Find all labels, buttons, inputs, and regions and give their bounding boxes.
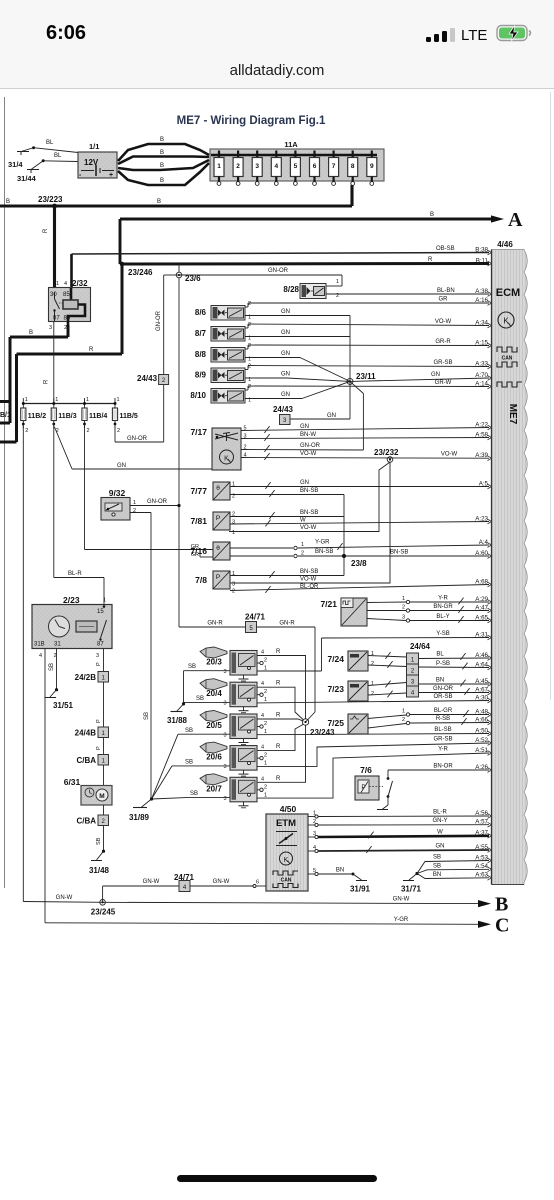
svg-text:ME7: ME7 — [507, 404, 518, 425]
connector C/BA 1 — [76, 755, 108, 766]
svg-text:9: 9 — [370, 163, 374, 170]
wire 7/17 pin 3 BN-W — [241, 432, 489, 441]
svg-text:2: 2 — [371, 661, 374, 667]
svg-text:GR-W: GR-W — [435, 380, 452, 386]
wire OB-SB to B:38 — [72, 246, 490, 288]
svg-text:A:63: A:63 — [475, 872, 488, 879]
wire 7/21 pin 1 Y-R — [367, 596, 489, 605]
svg-text:Y-GR: Y-GR — [394, 917, 409, 923]
svg-text:1: 1 — [232, 530, 235, 536]
svg-text:BL-GR: BL-GR — [434, 708, 453, 714]
connector C/BA 2 — [76, 815, 108, 826]
svg-text:R-SB: R-SB — [436, 716, 450, 722]
wire VO-W 23/232 to 7/81 pin1 — [229, 462, 390, 536]
sensor 7/25 — [327, 714, 368, 734]
node 23/232 — [374, 448, 399, 462]
wire R 20/4 pin4 — [257, 681, 303, 720]
svg-text:C/BA: C/BA — [76, 817, 96, 826]
wire 8/6 pin2 — [245, 303, 489, 307]
svg-text:6/31: 6/31 — [64, 777, 81, 787]
ignition coil 20/7 — [200, 774, 267, 808]
pressure sensor 7/8 — [195, 571, 230, 589]
svg-text:A:5: A:5 — [479, 480, 489, 487]
svg-text:BL: BL — [436, 652, 444, 658]
wire BL-SB 20/5 pin1 to A:50 — [257, 727, 489, 735]
starter motor 6/31 — [64, 777, 112, 805]
fuse 2 (11A) — [233, 151, 243, 186]
fuse 6 (11A) — [310, 151, 320, 186]
svg-text:SB: SB — [185, 728, 193, 734]
svg-text:BN-GR: BN-GR — [433, 604, 453, 610]
wire ETM pin 2 GN-Y — [308, 818, 489, 826]
svg-text:23/8: 23/8 — [351, 559, 367, 568]
svg-text:A:34: A:34 — [475, 319, 488, 326]
svg-text:A:51: A:51 — [475, 747, 488, 754]
wire from fuse 8 down — [350, 185, 353, 206]
svg-text:BN-SB: BN-SB — [300, 510, 318, 516]
wire 7/25 pin2 R-SB — [368, 716, 489, 728]
svg-text:P: P — [96, 719, 102, 723]
wire SB 20/7 to node 31/89 — [152, 791, 231, 799]
svg-text:R: R — [276, 744, 281, 750]
svg-text:2: 2 — [64, 325, 67, 331]
svg-text:GN-W: GN-W — [143, 879, 160, 885]
svg-text:3: 3 — [49, 325, 52, 331]
svg-text:23/243: 23/243 — [310, 728, 335, 737]
connector 24/4B — [75, 727, 109, 738]
svg-text:3: 3 — [223, 701, 226, 707]
svg-text:BN-SB: BN-SB — [390, 550, 408, 556]
svg-text:2: 2 — [25, 428, 28, 434]
connector 24/43 pin3 — [273, 405, 294, 425]
svg-text:BL-BN: BL-BN — [437, 288, 455, 294]
svg-text:1: 1 — [264, 697, 267, 703]
ground 31/71 SB SB BN — [401, 855, 489, 894]
svg-text:θ: θ — [216, 485, 220, 492]
svg-text:R: R — [276, 681, 281, 687]
wire motor to C/BA 2 — [103, 805, 105, 815]
wire R 20/6 pin4 — [257, 725, 303, 751]
svg-text:2: 2 — [236, 163, 240, 170]
svg-text:1: 1 — [371, 681, 374, 687]
svg-text:31/51: 31/51 — [53, 701, 74, 710]
wire OR-SB 20/4 pin1 to A:30 — [257, 694, 489, 703]
svg-text:BL: BL — [46, 140, 54, 146]
svg-text:A:22: A:22 — [475, 421, 488, 428]
wire VO-W 23/232 to 7/8 pin3 — [229, 462, 390, 588]
connector 24/71 pin5 — [245, 613, 266, 633]
injector 8/28 — [283, 279, 489, 299]
wire GN-OR 23/6 to 8/28 — [179, 268, 342, 286]
svg-text:CAN: CAN — [281, 878, 292, 884]
svg-text:1: 1 — [117, 397, 120, 403]
svg-text:Y-SB: Y-SB — [436, 631, 449, 637]
node 23/243 — [302, 719, 335, 737]
clock 6:06 — [46, 22, 86, 44]
svg-text:GR: GR — [191, 544, 199, 550]
svg-text:A:53: A:53 — [475, 854, 488, 861]
knock sensor 7/21 — [320, 598, 367, 626]
wire to motor 6/31 — [103, 765, 105, 786]
wire ETM pin 3 W — [308, 829, 489, 838]
svg-text:BN-SB: BN-SB — [300, 569, 318, 575]
svg-text:1: 1 — [402, 709, 405, 715]
svg-text:R: R — [276, 776, 281, 782]
svg-text:GN: GN — [117, 463, 126, 469]
svg-text:31/48: 31/48 — [89, 866, 110, 875]
fuse 11B/2 — [21, 397, 46, 434]
svg-text:+: + — [109, 172, 113, 179]
svg-text:B/1: B/1 — [0, 412, 11, 419]
wire color labels right column — [433, 297, 457, 458]
wire GN-W via 24/71 pin4 to ETM pin6 — [103, 879, 266, 902]
svg-text:P: P — [96, 746, 102, 750]
svg-text:11B/3: 11B/3 — [58, 413, 76, 420]
svg-text:1: 1 — [86, 397, 89, 403]
svg-text:R: R — [276, 649, 281, 655]
svg-text:GN: GN — [300, 480, 309, 486]
wire R drop to relay 2/32 pin1 — [43, 206, 55, 288]
wire SB 20/5 to node 31/89 — [152, 728, 231, 799]
svg-text:6: 6 — [313, 163, 317, 170]
svg-text:OB-SB: OB-SB — [436, 246, 455, 252]
svg-text:VO-W: VO-W — [300, 577, 317, 583]
svg-text:BN-OR: BN-OR — [433, 764, 453, 770]
svg-text:A:39: A:39 — [475, 452, 488, 459]
wire SB 20/6 to node 31/89 — [152, 760, 231, 800]
svg-text:4/46: 4/46 — [497, 240, 513, 249]
svg-text:A:45: A:45 — [475, 678, 488, 685]
wire 2/23 pin3 chain down — [96, 649, 104, 672]
svg-text:ME7 - Wiring Diagram Fig.1: ME7 - Wiring Diagram Fig.1 — [177, 115, 326, 127]
svg-text:1: 1 — [264, 792, 267, 798]
wire 2/23 pin4 to arrow C — [45, 649, 478, 925]
svg-text:SB: SB — [144, 712, 150, 720]
wire P-SB to A:64 — [419, 661, 490, 669]
switch 9/32 — [101, 488, 130, 520]
svg-text:K: K — [284, 857, 289, 864]
temp sensor 7/77 — [190, 482, 230, 500]
node 23/223 — [52, 204, 57, 209]
svg-text:31/44: 31/44 — [17, 174, 37, 183]
wire ETM pin 1 BL-R — [308, 810, 489, 819]
fuse bus 11B — [23, 403, 115, 405]
svg-text:GR-R: GR-R — [435, 339, 451, 345]
wire 11B/4 GR to 7/16 — [85, 424, 214, 557]
wire GN 8/6 pin1 — [245, 309, 350, 381]
svg-text:7/25: 7/25 — [327, 718, 344, 728]
svg-text:11B/5: 11B/5 — [120, 413, 138, 420]
svg-text:6:06: 6:06 — [46, 22, 86, 44]
diagram title — [177, 115, 326, 127]
pressure switch 7/6 — [355, 765, 393, 800]
wire BN to A:45 — [419, 678, 490, 687]
svg-text:GN: GN — [431, 372, 440, 378]
wire 7/24 pin2 P-SB — [368, 661, 407, 668]
ECM pin labels — [475, 246, 491, 880]
svg-text:SB: SB — [190, 791, 198, 797]
svg-text:SB: SB — [433, 855, 441, 861]
svg-text:3: 3 — [402, 615, 405, 621]
wire BL-BN to A:38 labels — [437, 288, 455, 294]
svg-text:SB: SB — [188, 664, 196, 670]
svg-text:8/28: 8/28 — [283, 285, 299, 294]
svg-text:BN: BN — [336, 868, 344, 874]
wire B 23/223 horizontal — [0, 195, 352, 206]
svg-text:BN-SB: BN-SB — [315, 549, 333, 555]
wire 7/17 pin 2 GN-OR — [241, 443, 363, 452]
wire BN-OR 7/6 to A:26 — [388, 764, 489, 779]
wire Y-SB 20/3 pin1 to A:31 — [257, 631, 489, 671]
wire GN 8/9 pin1 — [245, 372, 350, 382]
svg-text:5: 5 — [294, 163, 298, 170]
fuse 9 (11A) — [367, 151, 377, 186]
svg-text:GN-Y: GN-Y — [433, 818, 448, 824]
svg-text:GN: GN — [281, 351, 290, 357]
wire R 20/5 pin4 — [257, 713, 304, 722]
wire 8/9 pin2 — [245, 366, 489, 370]
sensor 7/23 — [327, 681, 368, 701]
wire GN-OR 7/17 pin2 to node 23/11 — [350, 381, 363, 450]
svg-text:VO-W: VO-W — [300, 451, 317, 457]
battery 1/1 12V — [78, 142, 117, 179]
svg-text:CAN: CAN — [502, 356, 513, 362]
svg-text:GN-W: GN-W — [393, 897, 410, 903]
svg-text:R: R — [44, 379, 50, 384]
throttle unit 7/17 — [190, 427, 241, 470]
svg-text:GN-OR: GN-OR — [268, 268, 289, 274]
svg-text:BL-SB: BL-SB — [434, 727, 451, 733]
svg-text:31/91: 31/91 — [350, 885, 371, 894]
svg-text:A:15: A:15 — [475, 339, 488, 346]
svg-text:A:30: A:30 — [475, 694, 488, 701]
wire BL 31/4 to battery — [34, 140, 78, 153]
svg-text:B: B — [430, 212, 434, 218]
svg-text:24/43: 24/43 — [137, 374, 158, 383]
wire 7/21 pin 2 BN-GR — [367, 604, 489, 613]
svg-text:A:47: A:47 — [475, 604, 488, 611]
ignition coil 20/3 — [200, 647, 267, 681]
svg-text:2/32: 2/32 — [72, 279, 88, 288]
wire 8/8 pin2 — [245, 345, 489, 349]
svg-text:3: 3 — [223, 764, 226, 770]
svg-text:7: 7 — [332, 163, 336, 170]
svg-text:3: 3 — [223, 733, 226, 739]
svg-text:30: 30 — [50, 292, 57, 298]
svg-text:24/4B: 24/4B — [75, 729, 97, 738]
svg-text:2: 2 — [87, 428, 90, 434]
svg-text:P: P — [216, 574, 220, 581]
svg-text:7/77: 7/77 — [190, 486, 207, 496]
wire BL-OR 7/8 pin2 to A:68 — [230, 584, 489, 595]
fuse 3 (11A) — [252, 151, 262, 186]
svg-text:7/21: 7/21 — [320, 599, 337, 609]
svg-text:31: 31 — [54, 642, 61, 648]
svg-text:24/43: 24/43 — [273, 405, 294, 414]
wire 11B/2 down to GN-W — [22, 424, 24, 902]
svg-text:4: 4 — [261, 681, 264, 687]
svg-text:A:4: A:4 — [479, 539, 489, 546]
svg-text:7/23: 7/23 — [327, 684, 344, 694]
svg-text:2: 2 — [117, 428, 120, 434]
svg-text:8/10: 8/10 — [190, 391, 206, 400]
svg-text:1: 1 — [232, 571, 235, 577]
wire GR-SB 20/6 pin1 to A:52 — [257, 737, 489, 767]
ignition coil 20/6 — [200, 742, 267, 776]
fusebox 11A — [210, 140, 384, 181]
svg-text:A:55: A:55 — [475, 844, 488, 851]
fuse 11B/5 — [112, 397, 137, 434]
svg-text:2: 2 — [264, 721, 267, 727]
svg-text:A:31: A:31 — [475, 631, 488, 638]
svg-text:A:37: A:37 — [475, 830, 488, 837]
svg-text:GN-OR: GN-OR — [300, 443, 321, 449]
svg-text:1: 1 — [336, 279, 339, 285]
svg-text:A:48: A:48 — [475, 708, 488, 715]
wire BN-SB 7/81 pin2 — [230, 510, 344, 519]
svg-text:4: 4 — [39, 653, 42, 659]
fuse 11B/4 — [82, 397, 107, 434]
svg-text:3: 3 — [223, 669, 226, 675]
svg-text:R: R — [89, 347, 94, 353]
svg-text:BN: BN — [436, 678, 444, 684]
svg-text:GN: GN — [436, 844, 445, 850]
svg-text:2: 2 — [248, 384, 251, 390]
wire R 20/3 pin4 — [257, 649, 306, 719]
page frame left — [4, 97, 6, 888]
wire BN-SB 7/16 pin2 to 23/8 — [230, 549, 489, 558]
node 23/6 — [176, 264, 201, 283]
wire SB 9/32 pin2 down — [130, 508, 151, 799]
svg-text:4: 4 — [274, 163, 278, 170]
ground switch 31/44 — [17, 159, 45, 183]
wire GN-W 11B/2 to arrow B — [23, 895, 478, 904]
svg-text:A:60: A:60 — [475, 550, 488, 557]
injector 8/7 — [195, 322, 251, 342]
svg-text:R: R — [276, 713, 281, 719]
wire 11B/5 GN-OR — [115, 275, 179, 442]
svg-text:GR-SB: GR-SB — [433, 737, 452, 743]
svg-text:SB: SB — [433, 863, 441, 869]
svg-text:8: 8 — [351, 163, 355, 170]
svg-text:GN: GN — [281, 309, 290, 315]
arrow B — [478, 894, 508, 916]
wire 7/23 pin1 BN — [368, 681, 407, 688]
svg-text:SB: SB — [49, 663, 55, 671]
svg-text:20/6: 20/6 — [206, 753, 222, 762]
svg-text:7/8: 7/8 — [195, 575, 207, 585]
svg-text:B: B — [157, 199, 161, 205]
connector 24/64 — [407, 642, 431, 697]
connector 24/2B — [75, 672, 109, 683]
svg-text:23/232: 23/232 — [374, 448, 399, 457]
svg-text:B: B — [160, 178, 164, 184]
ECM connector 4/46 — [492, 240, 528, 885]
svg-text:Y-R: Y-R — [438, 747, 448, 753]
wire GN 8/8 pin1 — [245, 351, 350, 381]
svg-text:GN: GN — [281, 330, 290, 336]
svg-text:GN: GN — [327, 413, 336, 419]
svg-text:31/89: 31/89 — [129, 813, 150, 822]
svg-text:SB: SB — [185, 760, 193, 766]
fuse 11B/3 — [51, 397, 76, 434]
svg-text:24/64: 24/64 — [410, 642, 431, 651]
svg-text:A:38: A:38 — [475, 288, 488, 295]
svg-text:3: 3 — [96, 653, 99, 659]
svg-text:3: 3 — [223, 796, 226, 802]
wire relay pin3 to fuse bus 11B — [44, 322, 54, 404]
wire 7/25 pin1 BL-GR — [368, 708, 489, 719]
svg-text:GN-OR: GN-OR — [156, 310, 162, 331]
wire GN 7/77 pin1 to A:5 — [230, 480, 489, 489]
wire 8/10 pin2 — [245, 386, 489, 390]
svg-text:VO-W: VO-W — [435, 319, 452, 325]
svg-text:GN-W: GN-W — [213, 879, 230, 885]
ignition coil 20/4 — [200, 679, 267, 713]
svg-text:1: 1 — [264, 761, 267, 767]
svg-text:4: 4 — [261, 713, 264, 719]
svg-text:1: 1 — [56, 281, 59, 287]
svg-text:VO-W: VO-W — [300, 525, 317, 531]
svg-text:P-SB: P-SB — [436, 661, 450, 667]
injector 8/9 — [195, 364, 251, 384]
svg-text:87: 87 — [97, 642, 104, 648]
svg-text:4/50: 4/50 — [280, 804, 297, 814]
svg-text:B: B — [495, 894, 508, 916]
svg-text:1: 1 — [217, 163, 221, 170]
svg-text:ECM: ECM — [496, 287, 520, 299]
svg-text:LTE: LTE — [461, 27, 487, 44]
connector 24/71 pin4 — [174, 873, 195, 892]
svg-text:4: 4 — [64, 281, 67, 287]
svg-text:1: 1 — [301, 542, 304, 548]
svg-text:2: 2 — [248, 364, 251, 370]
svg-text:4: 4 — [261, 776, 264, 782]
wire BL 31/44 to battery — [43, 153, 78, 162]
wire B to arrow A — [120, 212, 491, 264]
wire GN 8/10 pin1 — [245, 381, 350, 398]
temp sensor 7/16 — [190, 542, 230, 560]
svg-text:A:65: A:65 — [475, 614, 488, 621]
wire GN branch from 11B/3 — [55, 427, 213, 469]
svg-text:31/71: 31/71 — [401, 885, 422, 894]
svg-text:8/9: 8/9 — [195, 371, 207, 380]
svg-text:BL-R: BL-R — [433, 810, 447, 816]
svg-text:23/11: 23/11 — [356, 372, 376, 381]
svg-text:85: 85 — [63, 292, 70, 298]
svg-text:2: 2 — [264, 753, 267, 759]
svg-text:BN-SB: BN-SB — [300, 488, 318, 494]
wire R 23/246 to B:11 — [122, 257, 489, 277]
signal bars — [426, 28, 455, 42]
svg-text:2: 2 — [264, 689, 267, 695]
svg-text:8/8: 8/8 — [195, 350, 207, 359]
svg-text:alldatadiy.com: alldatadiy.com — [230, 62, 325, 79]
svg-text:GN-W: GN-W — [56, 895, 73, 901]
wire SB 2/23 pin2 to ground 31/51 — [45, 649, 74, 711]
svg-text:20/5: 20/5 — [206, 721, 222, 730]
svg-text:2: 2 — [248, 343, 251, 349]
svg-text:1: 1 — [103, 598, 106, 604]
wire R 20/7 pin4 — [257, 726, 306, 783]
svg-text:2: 2 — [232, 589, 235, 595]
svg-text:3: 3 — [232, 582, 235, 588]
svg-text:A:66: A:66 — [475, 716, 488, 723]
svg-text:W: W — [437, 829, 443, 835]
svg-text:1: 1 — [264, 729, 267, 735]
ignition coil 20/5 — [200, 711, 267, 745]
svg-text:A:33: A:33 — [475, 360, 488, 367]
